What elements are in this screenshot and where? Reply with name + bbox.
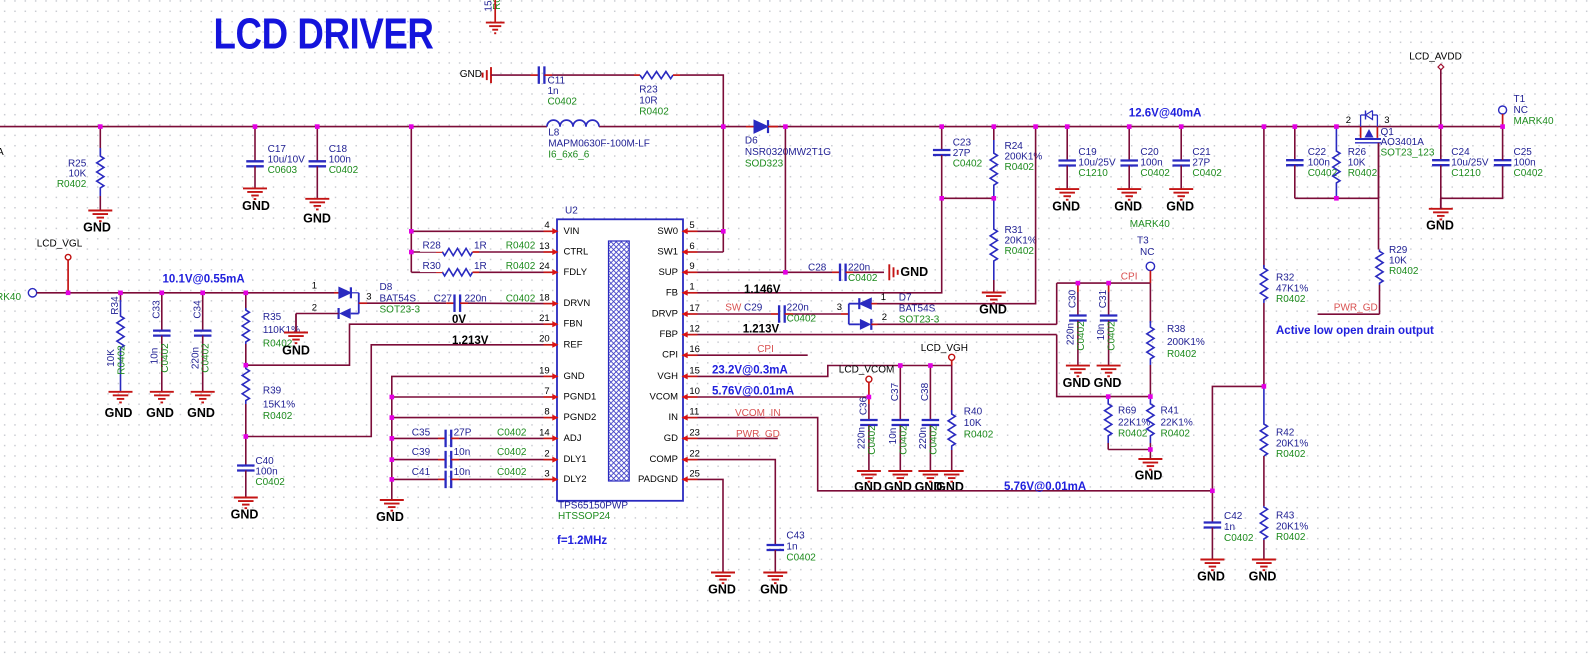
wire R42 to R43 — [1263, 456, 1265, 506]
svg-text:C37: C37 — [890, 382, 901, 401]
wire C22 to bottom rail — [1294, 165, 1296, 198]
ground (R31) — [979, 293, 1007, 317]
svg-text:10n: 10n — [1096, 324, 1107, 341]
ground (D8 pin2) — [282, 333, 310, 358]
svg-text:C33: C33 — [151, 300, 162, 319]
svg-text:HTSSOP24: HTSSOP24 — [558, 511, 611, 522]
resistor R32 — [1260, 265, 1308, 386]
resistor R40 — [948, 366, 994, 472]
wire C22/R26 bottom rail — [1295, 198, 1379, 249]
svg-text:10K: 10K — [1389, 256, 1407, 267]
ground (C17) — [242, 188, 270, 212]
svg-text:2: 2 — [1346, 115, 1351, 126]
svg-text:10K: 10K — [69, 169, 87, 180]
annotation Active low open drain output — [1276, 325, 1434, 337]
ground (C37) — [884, 471, 912, 494]
wire bus to C18 — [316, 127, 318, 162]
annotation 5.76V@0.01mA (right) — [1004, 481, 1086, 493]
wire C29 to D7 pin3 — [793, 313, 841, 315]
pin 23 GD (U2 right) — [664, 427, 700, 444]
svg-text:GND: GND — [1052, 199, 1080, 213]
svg-text:R31: R31 — [1005, 225, 1024, 236]
svg-text:C35: C35 — [412, 428, 431, 439]
svg-text:SOD323: SOD323 — [745, 159, 784, 170]
capacitor C36 — [857, 396, 878, 471]
ground (C36) — [854, 471, 882, 494]
svg-text:GD: GD — [664, 433, 678, 444]
svg-text:C19: C19 — [1078, 147, 1097, 158]
capacitor C27 — [434, 294, 536, 312]
svg-text:1: 1 — [689, 282, 694, 293]
wire IN row and down — [698, 418, 1213, 491]
svg-text:GND: GND — [884, 480, 912, 494]
pin 15 VGH (U2 right) — [657, 365, 700, 382]
svg-text:200K1%: 200K1% — [1005, 152, 1043, 163]
svg-text:PADGND: PADGND — [638, 474, 678, 485]
svg-text:SOT23_123: SOT23_123 — [1381, 147, 1435, 158]
capacitor C30 — [1066, 283, 1087, 366]
wire REF jog — [246, 345, 544, 437]
svg-text:LCD_VCOM: LCD_VCOM — [839, 365, 895, 376]
svg-text:GND: GND — [1063, 376, 1091, 390]
svg-text:10R: 10R — [639, 96, 657, 107]
capacitor C22 — [1286, 147, 1338, 179]
svg-text:3: 3 — [366, 291, 371, 302]
svg-text:C0402: C0402 — [1308, 168, 1338, 179]
svg-text:110K1%: 110K1% — [263, 325, 300, 336]
capacitor C34 — [190, 293, 211, 392]
svg-text:GND: GND — [376, 510, 404, 524]
svg-text:R0402: R0402 — [639, 107, 669, 118]
capacitor C41 — [392, 467, 544, 488]
svg-text:R26: R26 — [1348, 147, 1367, 158]
svg-text:C0402: C0402 — [786, 553, 816, 564]
svg-text:C0402: C0402 — [548, 97, 578, 108]
pin 24 FDLY (U2 left) — [539, 261, 588, 278]
diode D7 BAT54S — [837, 292, 940, 330]
svg-text:SW0: SW0 — [657, 226, 678, 237]
svg-text:D8: D8 — [380, 282, 393, 293]
svg-text:C43: C43 — [786, 531, 805, 542]
svg-text:1: 1 — [312, 281, 317, 292]
annotation 1.146V — [744, 284, 781, 296]
svg-text:Active low open drain output: Active low open drain output — [1276, 325, 1434, 337]
svg-text:10K: 10K — [106, 349, 117, 367]
net label A (clipped, left edge) — [0, 147, 4, 158]
title text LCD DRIVER — [214, 10, 434, 58]
svg-text:6: 6 — [689, 241, 694, 252]
svg-text:GND: GND — [1135, 468, 1163, 482]
port LCD_VGL — [37, 239, 83, 293]
wire bus to C23 — [941, 127, 943, 150]
svg-text:REF: REF — [564, 339, 583, 350]
wire PGND2 row — [392, 417, 544, 419]
svg-text:R0402: R0402 — [1161, 429, 1191, 440]
stub D7 pin1 — [871, 303, 877, 305]
capacitor C25 — [1494, 147, 1544, 179]
svg-text:T1: T1 — [1514, 94, 1526, 105]
svg-text:VCOM_IN: VCOM_IN — [735, 408, 781, 419]
resistor R43 — [1260, 506, 1308, 560]
svg-text:SOT23-3: SOT23-3 — [380, 305, 421, 316]
svg-text:GND: GND — [936, 480, 964, 494]
wire COMP row — [698, 460, 776, 545]
svg-text:2: 2 — [544, 449, 549, 460]
svg-text:27P: 27P — [953, 148, 971, 159]
svg-text:C0402: C0402 — [953, 159, 983, 170]
svg-text:10n: 10n — [454, 447, 471, 458]
svg-text:C0402: C0402 — [848, 273, 878, 284]
resistor R35 — [242, 293, 300, 365]
svg-text:C42: C42 — [1224, 511, 1243, 522]
svg-text:GND: GND — [564, 371, 585, 382]
svg-text:R0402: R0402 — [1276, 449, 1306, 460]
svg-text:R32: R32 — [1276, 273, 1295, 284]
svg-text:C0402: C0402 — [497, 467, 527, 478]
svg-text:C39: C39 — [412, 447, 431, 458]
capacitor C38 — [918, 366, 939, 472]
svg-text:1.146V: 1.146V — [744, 284, 781, 296]
svg-text:7: 7 — [544, 386, 549, 397]
ground (C20) — [1114, 189, 1142, 213]
svg-text:100n: 100n — [1140, 158, 1162, 169]
svg-text:T3: T3 — [1137, 236, 1149, 247]
wire C21 to ground — [1180, 166, 1182, 190]
svg-text:C0402: C0402 — [329, 165, 359, 176]
svg-text:220n: 220n — [190, 347, 201, 369]
svg-text:C0402: C0402 — [497, 428, 527, 439]
pin 10 VCOM (U2 right) — [650, 386, 700, 403]
capacitor C28 — [808, 263, 878, 285]
wire C28 to ground — [853, 271, 884, 273]
svg-text:R0402: R0402 — [263, 411, 293, 422]
svg-text:C41: C41 — [412, 467, 431, 478]
svg-text:22: 22 — [689, 449, 700, 460]
ground (C18) — [303, 199, 331, 225]
svg-text:R39: R39 — [263, 386, 282, 397]
resistor R69 — [1105, 397, 1151, 450]
svg-text:C1210: C1210 — [1451, 168, 1481, 179]
svg-text:C0402: C0402 — [255, 477, 285, 488]
resistor R25 — [57, 148, 104, 196]
svg-text:1n: 1n — [548, 86, 559, 97]
capacitor C35 — [392, 428, 544, 448]
ground (R43) — [1249, 560, 1277, 584]
svg-text:MARK40: MARK40 — [1130, 219, 1170, 230]
svg-text:COMP: COMP — [650, 454, 679, 465]
pin 3 DLY2 (U2 left) — [544, 468, 587, 485]
svg-text:C20: C20 — [1140, 147, 1159, 158]
svg-text:R0402: R0402 — [117, 345, 128, 375]
wire bus down to SUP row — [784, 127, 786, 273]
svg-text:1.213V: 1.213V — [452, 335, 489, 347]
wire FB row — [698, 198, 942, 292]
svg-text:R0402: R0402 — [1118, 429, 1148, 440]
pin 1 FB (U2 right) — [666, 282, 698, 299]
svg-text:R0402: R0402 — [1005, 162, 1035, 173]
svg-text:SW1: SW1 — [657, 247, 678, 258]
svg-text:PWR_GD: PWR_GD — [736, 429, 780, 440]
pin 20 REF (U2 left) — [539, 334, 583, 351]
ground (C43) — [760, 573, 788, 597]
svg-text:22K1%: 22K1% — [1118, 417, 1150, 428]
svg-text:5.76V@0.01mA: 5.76V@0.01mA — [712, 386, 794, 398]
pin 6 SW1 (U2 right) — [657, 241, 697, 258]
wire 12.6V rail right segment — [771, 126, 1503, 128]
svg-text:D7: D7 — [899, 293, 912, 304]
svg-text:L8: L8 — [548, 128, 560, 139]
ground (R69/R41) — [1135, 459, 1163, 482]
port MARK40 test point (left) — [0, 289, 37, 304]
wire C24/C25 bottom rail — [1441, 165, 1503, 198]
svg-text:C25: C25 — [1514, 147, 1533, 158]
svg-text:2: 2 — [882, 312, 887, 323]
svg-text:C1210: C1210 — [1078, 168, 1108, 179]
svg-text:SW: SW — [725, 303, 742, 314]
capacitor C40 — [237, 437, 285, 498]
svg-text:18: 18 — [539, 293, 550, 304]
svg-text:A: A — [0, 147, 4, 158]
svg-text:C0402: C0402 — [1107, 321, 1118, 351]
svg-text:LCD DRIVER: LCD DRIVER — [214, 10, 434, 58]
wire bus to C19 — [1066, 127, 1068, 161]
wire D8 pin3 to C27 — [367, 302, 446, 304]
pin 21 FBN (U2 left) — [539, 313, 583, 330]
wire SUP row — [698, 271, 833, 273]
svg-text:C29: C29 — [744, 303, 763, 314]
resistor R? (clipped at top edge) value 15K — [484, 0, 504, 23]
svg-text:10.1V@0.55mA: 10.1V@0.55mA — [163, 274, 245, 286]
svg-text:PGND2: PGND2 — [564, 412, 597, 423]
resistor R26 — [1333, 127, 1378, 199]
svg-text:200K1%: 200K1% — [1167, 337, 1205, 348]
resistor R34 — [106, 293, 127, 392]
svg-text:17: 17 — [689, 303, 700, 314]
wire C23 bottom to FB node — [941, 155, 943, 198]
svg-text:C0402: C0402 — [1224, 533, 1254, 544]
wire CPI pin row — [698, 354, 808, 356]
wire PADGND row — [698, 479, 724, 572]
svg-text:R35: R35 — [263, 312, 282, 323]
svg-text:5.76V@0.01mA: 5.76V@0.01mA — [1004, 481, 1086, 493]
capacitor C19 — [1058, 147, 1116, 179]
net label PWR_GD (right) — [1334, 303, 1378, 314]
port T1 test point — [1499, 94, 1554, 127]
port LCD_AVDD — [1409, 52, 1462, 70]
wire FBP row — [698, 334, 1057, 336]
svg-text:C0402: C0402 — [928, 425, 939, 455]
svg-text:C0402: C0402 — [1140, 168, 1170, 179]
annotation 23.2V@0.3mA — [712, 365, 788, 377]
svg-text:220n: 220n — [1066, 323, 1077, 345]
svg-text:27P: 27P — [454, 428, 472, 439]
pin 7 PGND1 (U2 left) — [544, 386, 597, 403]
pin 19 GND (U2 left) — [539, 365, 585, 382]
svg-text:VCOM: VCOM — [650, 392, 679, 403]
capacitor C33 — [149, 293, 170, 392]
svg-text:C0402: C0402 — [898, 425, 909, 455]
svg-text:20K1%: 20K1% — [1276, 522, 1308, 533]
svg-text:PGND1: PGND1 — [564, 392, 597, 403]
svg-text:C0402: C0402 — [1076, 321, 1087, 351]
capacitor C17 — [246, 144, 305, 176]
wire C20 to ground — [1128, 166, 1130, 190]
port T3 test point — [1130, 219, 1170, 283]
capacitor C43 — [767, 531, 817, 573]
svg-text:C21: C21 — [1192, 147, 1211, 158]
transistor Q1 AO3401A (P-MOSFET) — [1346, 111, 1435, 199]
ground (C21) — [1166, 189, 1194, 213]
svg-text:16: 16 — [689, 344, 700, 355]
svg-text:10n: 10n — [888, 428, 899, 445]
wire D7 pin2 to CPI node — [878, 323, 1057, 325]
svg-text:C38: C38 — [920, 382, 931, 401]
svg-text:R0402: R0402 — [1276, 532, 1306, 543]
ground (C38) — [915, 471, 943, 494]
capacitor C20 — [1120, 147, 1170, 179]
svg-text:R38: R38 — [1167, 324, 1186, 335]
svg-text:R30: R30 — [423, 261, 442, 272]
svg-text:R43: R43 — [1276, 511, 1295, 522]
svg-text:1n: 1n — [1224, 522, 1235, 533]
ground (R40) — [936, 471, 964, 494]
svg-text:D6: D6 — [745, 136, 758, 147]
pin 16 CPI (U2 right) — [662, 344, 700, 361]
wire up to VCOM divider node — [1212, 386, 1264, 490]
svg-text:R0402: R0402 — [506, 241, 536, 252]
wire bus down to VIN/CTRL/FDLY — [410, 127, 412, 273]
svg-text:15K1%: 15K1% — [263, 399, 295, 410]
annotation 1.213V (FBP) — [743, 324, 780, 336]
capacitor C37 — [888, 366, 909, 472]
wire D8 pin2 to ground — [296, 313, 339, 315]
svg-text:C17: C17 — [268, 144, 287, 155]
svg-text:GND: GND — [303, 211, 331, 225]
wire SW0 — [698, 230, 724, 232]
svg-text:ADJ: ADJ — [564, 433, 582, 444]
annotation 12.6V@40mA — [1129, 108, 1202, 120]
svg-text:100n: 100n — [255, 467, 277, 478]
resistor R29 — [1376, 245, 1419, 314]
svg-text:C34: C34 — [192, 300, 203, 319]
svg-text:R0402: R0402 — [1276, 294, 1306, 305]
svg-text:10u/25V: 10u/25V — [1451, 158, 1489, 169]
svg-text:21: 21 — [539, 313, 550, 324]
wire R69/R41 bottoms — [1108, 450, 1150, 460]
svg-text:R0402: R0402 — [1167, 349, 1197, 360]
capacitor C39 — [392, 447, 544, 468]
port LCD_VCOM — [839, 365, 895, 397]
svg-text:19: 19 — [539, 365, 550, 376]
svg-text:100n: 100n — [329, 155, 351, 166]
svg-text:LCD_VGL: LCD_VGL — [37, 239, 83, 250]
resistor R31 — [990, 198, 1037, 280]
svg-text:TPS65150PWP: TPS65150PWP — [558, 501, 628, 512]
svg-text:GND: GND — [708, 582, 736, 596]
svg-text:10u/10V: 10u/10V — [268, 155, 306, 166]
wire VIN row — [411, 230, 543, 232]
svg-text:C30: C30 — [1068, 289, 1079, 308]
svg-text:VGH: VGH — [657, 371, 678, 382]
wire C17 to ground — [254, 166, 256, 188]
net label SW — [725, 303, 742, 314]
capacitor C31 — [1096, 283, 1117, 366]
svg-text:1.213V: 1.213V — [743, 324, 780, 336]
svg-text:100n: 100n — [1514, 158, 1536, 169]
wire R25 to ground — [99, 196, 101, 211]
svg-text:220n: 220n — [918, 427, 929, 449]
svg-text:LCD_VGH: LCD_VGH — [921, 343, 968, 354]
wire C19 to ground — [1066, 166, 1068, 190]
svg-text:23: 23 — [689, 427, 700, 438]
resistor R38 — [1147, 283, 1205, 397]
svg-text:R0402: R0402 — [1005, 246, 1035, 257]
svg-text:1n: 1n — [786, 542, 797, 553]
svg-text:C0603: C0603 — [268, 165, 298, 176]
pin 5 SW0 (U2 right) — [657, 220, 697, 237]
svg-text:CTRL: CTRL — [564, 247, 589, 258]
wire bus to C21 — [1180, 127, 1182, 161]
wire GD row — [698, 437, 778, 439]
wire FBN jog — [246, 324, 544, 365]
svg-text:R0402: R0402 — [964, 430, 994, 441]
svg-text:11: 11 — [689, 407, 699, 418]
pin 9 SUP (U2 right) — [658, 261, 697, 278]
svg-text:MARK40: MARK40 — [0, 292, 21, 303]
wire bus to C24 — [1440, 127, 1442, 161]
svg-text:CPI: CPI — [662, 350, 678, 361]
svg-text:FDLY: FDLY — [564, 267, 588, 278]
pin 4 VIN (U2 left) — [544, 220, 580, 237]
svg-text:NSR0320MW2T1G: NSR0320MW2T1G — [745, 147, 831, 158]
svg-text:R0402: R0402 — [506, 261, 536, 272]
svg-text:GND: GND — [1249, 569, 1277, 583]
svg-text:SUP: SUP — [658, 267, 678, 278]
svg-text:27P: 27P — [1192, 158, 1210, 169]
svg-text:C11: C11 — [548, 76, 566, 87]
svg-text:R0402: R0402 — [1389, 266, 1419, 277]
capacitor C11 — [531, 66, 578, 107]
svg-text:CPI: CPI — [1121, 272, 1138, 283]
svg-text:5: 5 — [689, 220, 694, 231]
svg-text:R42: R42 — [1276, 428, 1295, 439]
svg-text:25: 25 — [689, 468, 700, 479]
svg-text:U2: U2 — [565, 206, 578, 217]
wire main bus VIN/12.6V rail — [0, 126, 547, 128]
svg-text:C18: C18 — [329, 144, 348, 155]
wire VCOM row — [698, 396, 869, 398]
svg-text:2: 2 — [312, 303, 317, 314]
svg-text:13: 13 — [539, 241, 550, 252]
resistor R24 — [990, 127, 1042, 199]
svg-text:NC: NC — [1514, 105, 1528, 116]
svg-text:GND: GND — [231, 507, 259, 521]
net label CPI (at pin) — [757, 344, 774, 355]
annotation 10.1V@0.55mA — [163, 274, 245, 286]
svg-text:10K: 10K — [1348, 158, 1366, 169]
svg-text:C0402: C0402 — [1514, 168, 1544, 179]
net label GND (C11 row) — [460, 69, 482, 80]
svg-text:C0402: C0402 — [1192, 168, 1222, 179]
annotation 0V — [452, 314, 466, 326]
svg-text:9: 9 — [689, 261, 694, 272]
svg-text:10n: 10n — [149, 348, 160, 365]
ground (C31) — [1094, 366, 1122, 390]
ground (R34) — [105, 392, 133, 420]
svg-text:R23: R23 — [639, 85, 658, 96]
ground (top, x=495) — [486, 23, 505, 34]
wire bus to C17 — [254, 127, 256, 162]
